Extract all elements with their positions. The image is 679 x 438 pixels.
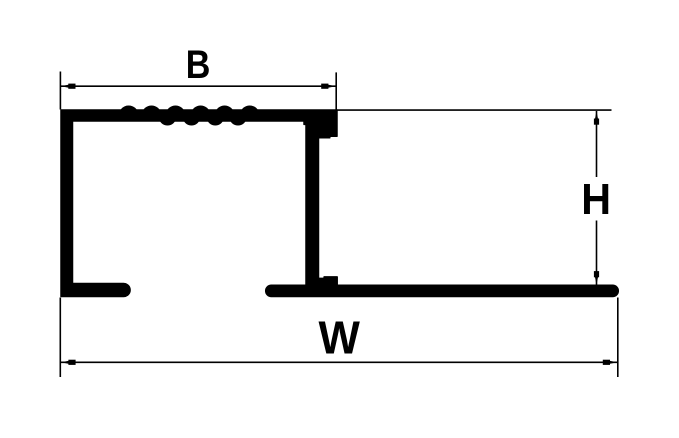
knurl bump bottom 2 bbox=[184, 112, 200, 126]
arrow W right bbox=[603, 360, 618, 365]
arrow H down bbox=[594, 271, 599, 285]
svg-text:W: W bbox=[319, 312, 361, 364]
extension line H top bbox=[337, 109, 612, 111]
knurl bump top 3 bbox=[167, 106, 185, 121]
knurl bump top 4 bbox=[192, 106, 210, 121]
dimension line B bbox=[61, 85, 336, 87]
arrow W left bbox=[61, 360, 76, 365]
knurl bump top 1 bbox=[120, 106, 138, 121]
svg-text:B: B bbox=[186, 41, 211, 86]
knurl bump bottom 3 bbox=[207, 112, 223, 126]
knurl bump top 6 bbox=[241, 106, 259, 121]
arrow B left bbox=[61, 84, 76, 89]
extension line W right bbox=[617, 298, 619, 378]
extension line W left bbox=[59, 298, 61, 378]
dimension line W bbox=[61, 361, 617, 363]
knurl bump bottom 4 bbox=[230, 112, 246, 126]
knurl bump top 5 bbox=[216, 106, 234, 121]
svg-text:H: H bbox=[581, 175, 611, 223]
extension line B right bbox=[335, 72, 337, 110]
knurl bump bottom 1 bbox=[160, 112, 176, 126]
arrow B right bbox=[321, 84, 336, 89]
dimension line H lower bbox=[596, 221, 598, 285]
extension line B left bbox=[59, 72, 61, 110]
profile body (cross-section outline) bbox=[61, 110, 618, 297]
knurl bump top 2 bbox=[143, 106, 161, 121]
arrow H up bbox=[594, 111, 599, 125]
dimension line H upper bbox=[596, 111, 598, 177]
